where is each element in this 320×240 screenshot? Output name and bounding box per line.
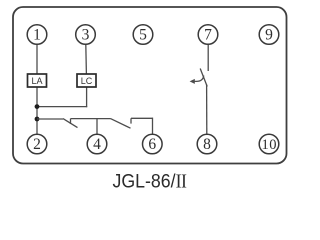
wire coil LA to node row [36, 87, 38, 134]
coil LC [77, 74, 96, 87]
svg-text:2: 2 [33, 136, 41, 153]
svg-text:8: 8 [203, 136, 211, 153]
manual-reset arrow [194, 76, 204, 82]
wire terminal 1 to coil LA [36, 45, 38, 75]
contact K2 tick [130, 118, 132, 123]
contact K1 (2-4) left wire [37, 118, 63, 120]
terminal 9 [259, 25, 279, 45]
contact K2 blade [111, 119, 131, 129]
svg-text:5: 5 [139, 27, 147, 44]
junction dot upper [35, 104, 40, 109]
relay case outline [13, 7, 287, 164]
junction dot lower [35, 117, 40, 122]
terminal 4 [87, 134, 107, 154]
wire K1 to node 4 [71, 118, 111, 120]
svg-text:6: 6 [148, 136, 156, 153]
contact K1 blade [63, 119, 78, 128]
svg-text:LC: LC [81, 76, 93, 86]
svg-text:10: 10 [262, 137, 277, 153]
terminal 3 [76, 25, 96, 45]
svg-text:1: 1 [33, 27, 41, 44]
terminal 8 [197, 134, 217, 154]
terminal 2 [27, 134, 47, 154]
svg-text:4: 4 [93, 136, 101, 153]
wire terminal 7 down [207, 45, 209, 72]
terminal 1 [27, 25, 47, 45]
wire coil bottom bus [36, 106, 87, 108]
svg-text:9: 9 [265, 27, 273, 44]
terminal 5 [133, 25, 153, 45]
svg-text:JGL-86/II: JGL-86/II [113, 171, 187, 193]
terminal 6 [143, 134, 163, 154]
wire terminal 3 to coil LC [85, 45, 88, 75]
svg-text:LA: LA [31, 76, 42, 86]
contact K3 blade [200, 69, 207, 87]
contact K1 tick [70, 119, 72, 124]
wire corner down to terminal 6 [152, 118, 154, 134]
wire contact to terminal 8 [206, 85, 208, 135]
coil LA [28, 74, 47, 87]
terminal 7 [198, 25, 218, 45]
svg-text:3: 3 [82, 27, 90, 44]
wire node 4 drop [96, 119, 98, 134]
svg-text:7: 7 [204, 27, 212, 44]
terminal 10 [259, 134, 279, 154]
wire K2 to corner [131, 117, 153, 119]
wire coil LC to bus [86, 87, 88, 107]
